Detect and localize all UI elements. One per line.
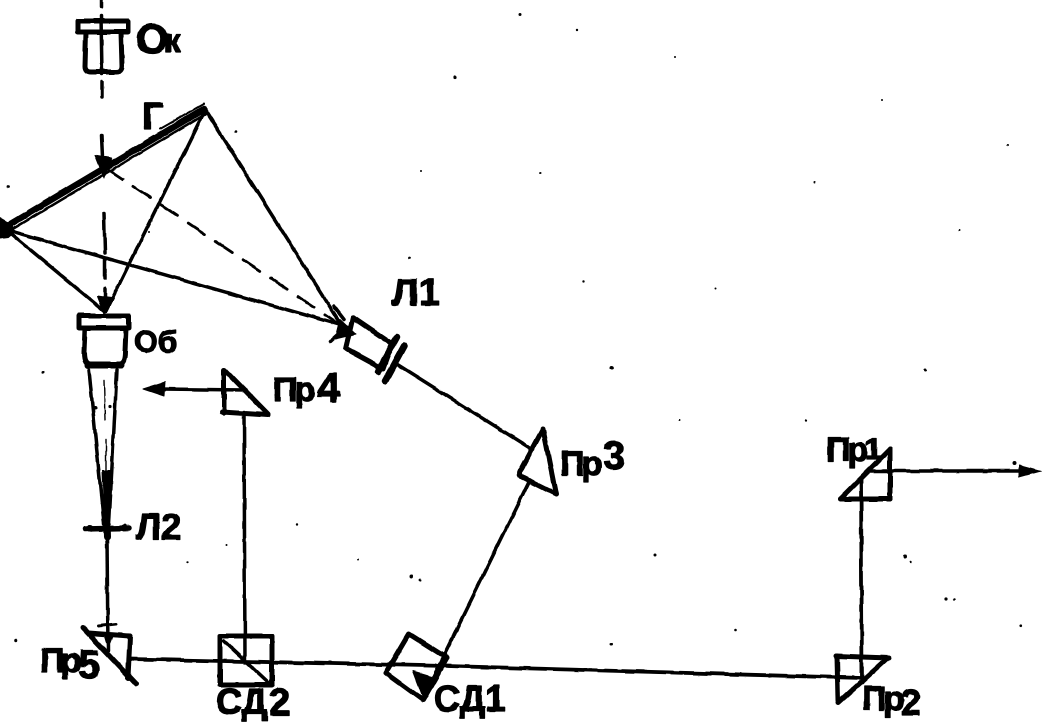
- prism Пр4: [222, 370, 268, 415]
- svg-text:Пр: Пр: [40, 642, 80, 680]
- vertical beam Пр2 to Пр1: [861, 478, 862, 683]
- beam Л1 to Пр3: [395, 363, 533, 450]
- vertical beam Пр4 to СД2: [244, 412, 245, 662]
- arrowhead at Об entrance: [97, 296, 111, 314]
- prism Пр5: [83, 628, 136, 684]
- lens Л2: [85, 470, 129, 537]
- svg-text:1: 1: [865, 433, 882, 466]
- label Л2: [136, 506, 181, 547]
- prism Пр3: [520, 429, 556, 494]
- svg-text:Пр: Пр: [862, 680, 903, 718]
- beam Л2 down to Пр5: [107, 537, 108, 651]
- arrowhead on grating at axis: [95, 155, 112, 178]
- beam splitter СД1 (tilted square): [386, 634, 447, 700]
- objective Об: [79, 316, 129, 365]
- beam: grating left tip to Л1 focus: [4, 229, 348, 327]
- svg-text:СД1: СД1: [434, 678, 505, 719]
- label Пр3: [560, 434, 625, 483]
- svg-text:2: 2: [269, 682, 290, 724]
- dashed beam: grating centre to Л1 focus: [106, 168, 348, 330]
- label Пр4: [273, 364, 341, 411]
- label Ок: [136, 15, 181, 62]
- diffraction grating Г: [2, 104, 205, 233]
- svg-text:Пр: Пр: [273, 371, 314, 409]
- svg-text:Л1: Л1: [392, 272, 440, 314]
- svg-text:к: к: [164, 22, 181, 59]
- prism Пр1: [840, 449, 890, 499]
- label Л1: [392, 272, 440, 314]
- beam Пр3 to СД1 with arrowhead: [428, 480, 530, 688]
- svg-text:4: 4: [317, 364, 341, 411]
- svg-text:Г: Г: [142, 96, 164, 138]
- svg-text:3: 3: [603, 434, 625, 478]
- output beam from Пр1 to right edge with arrowhead: [869, 469, 1026, 473]
- arrowhead at Пр5: [104, 634, 113, 648]
- label СД2: [216, 681, 290, 724]
- label Пр1: [826, 431, 882, 469]
- label Об: [134, 324, 177, 359]
- svg-text:Об: Об: [134, 324, 177, 359]
- label Пр2: [862, 680, 921, 723]
- beam splitter СД2: [220, 636, 272, 685]
- beam: grating top end to Об: [106, 110, 205, 311]
- horizontal bus beam Пр5 to Пр2: [131, 659, 862, 678]
- label Пр5: [40, 642, 100, 687]
- optical axis dashed line (Ок to Об): [101, 0, 105, 303]
- beam: grating top end to Л1 focus: [206, 111, 344, 329]
- svg-text:Пр: Пр: [826, 431, 867, 469]
- lens Л1 barrel: [346, 317, 404, 381]
- svg-text:2: 2: [901, 682, 921, 723]
- label СД1: [434, 678, 505, 719]
- tick above Пр5: [98, 624, 116, 626]
- svg-text:Л2: Л2: [136, 506, 181, 547]
- focus marks at Л1 entrance: [330, 306, 356, 341]
- prism Пр2: [836, 656, 889, 703]
- svg-text:СД: СД: [216, 681, 267, 722]
- eyepiece Ок body: [78, 21, 128, 72]
- svg-text:5: 5: [78, 643, 100, 687]
- label Г: [142, 96, 164, 138]
- output arrow from Пр4: [160, 389, 246, 390]
- grating left tip wedge: [0, 217, 15, 239]
- converging cone Об to Л2: [89, 370, 117, 524]
- beam: grating left tip to Об: [4, 228, 103, 310]
